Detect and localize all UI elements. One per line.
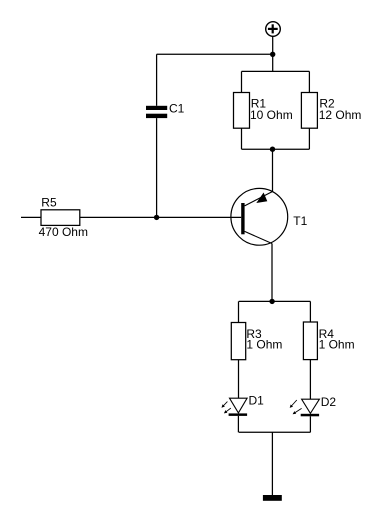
svg-text:C1: C1: [169, 102, 185, 116]
junction dot collector node: [270, 147, 275, 152]
wire emitter vertical: [271, 244, 273, 302]
resistor R5: [41, 210, 80, 226]
resistor R4: [303, 322, 317, 360]
led D2: [290, 399, 320, 416]
wire R3 upper lead: [238, 301, 240, 322]
svg-text:10 Ohm: 10 Ohm: [250, 108, 293, 122]
svg-text:12 Ohm: 12 Ohm: [319, 108, 362, 122]
svg-text:1 Ohm: 1 Ohm: [246, 338, 282, 352]
wire bottom rail of D1/D2 block: [239, 431, 311, 433]
wire R2 upper lead: [308, 71, 310, 92]
wire supply vertical down to top rail: [272, 36, 274, 71]
junction dot at supply wire: [270, 52, 275, 57]
transistor T1: [231, 188, 288, 245]
svg-text:D2: D2: [321, 395, 337, 409]
wire R4 to D2: [309, 360, 311, 400]
led D1: [222, 398, 248, 416]
capacitor C1: [146, 106, 167, 118]
wire top horizontal from C1 to supply: [157, 53, 273, 55]
svg-text:T1: T1: [293, 214, 307, 228]
wire R3 to D1: [238, 360, 240, 399]
wire bottom rail of R1/R2 block: [242, 148, 310, 150]
wire left stub into R5: [21, 216, 41, 218]
wire top rail of R3/R4 block: [239, 300, 311, 302]
wire top rail of R1/R2 block: [242, 70, 310, 72]
ground: [263, 495, 282, 501]
junction dot emitter node: [269, 299, 274, 304]
wire C1 top vertical: [156, 54, 158, 106]
resistor R3: [231, 323, 245, 360]
resistor R2: [301, 93, 317, 129]
wire R1 lower lead: [241, 128, 243, 149]
wire D2 to bottom rail: [309, 416, 311, 432]
resistor R1: [234, 93, 250, 129]
svg-text:R5: R5: [41, 196, 57, 210]
power supply terminal +V: [266, 22, 281, 37]
wire R2 lower lead: [308, 128, 310, 149]
wire R5 to transistor base: [80, 216, 241, 218]
svg-text:470 Ohm: 470 Ohm: [39, 225, 88, 239]
wire C1 bottom vertical to base node: [156, 118, 158, 217]
junction dot node base/C1: [154, 215, 159, 220]
wire D1 to bottom rail: [237, 416, 239, 432]
wire collector vertical: [272, 149, 274, 191]
svg-text:1 Ohm: 1 Ohm: [319, 338, 355, 352]
wire ground vertical: [271, 432, 273, 495]
wire R4 upper lead: [309, 301, 311, 322]
svg-text:D1: D1: [249, 394, 265, 408]
wire R1 upper lead: [241, 71, 243, 92]
